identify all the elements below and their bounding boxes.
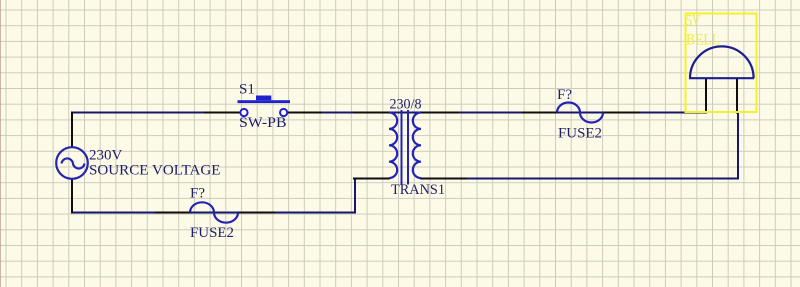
svg-text:FUSE2: FUSE2 <box>190 225 234 241</box>
svg-text:230/8: 230/8 <box>390 97 422 113</box>
svg-text:BELL: BELL <box>686 32 720 49</box>
svg-text:TRANS1: TRANS1 <box>391 182 445 198</box>
svg-text:FUSE2: FUSE2 <box>558 126 602 142</box>
svg-text:F?: F? <box>190 186 205 202</box>
svg-text:230V: 230V <box>89 148 123 164</box>
svg-text:SW-PB: SW-PB <box>239 115 287 131</box>
svg-text:S1: S1 <box>239 82 255 98</box>
svg-text:5V: 5V <box>686 13 701 30</box>
svg-text:SOURCE VOLTAGE: SOURCE VOLTAGE <box>89 163 221 179</box>
svg-text:F?: F? <box>557 87 572 103</box>
